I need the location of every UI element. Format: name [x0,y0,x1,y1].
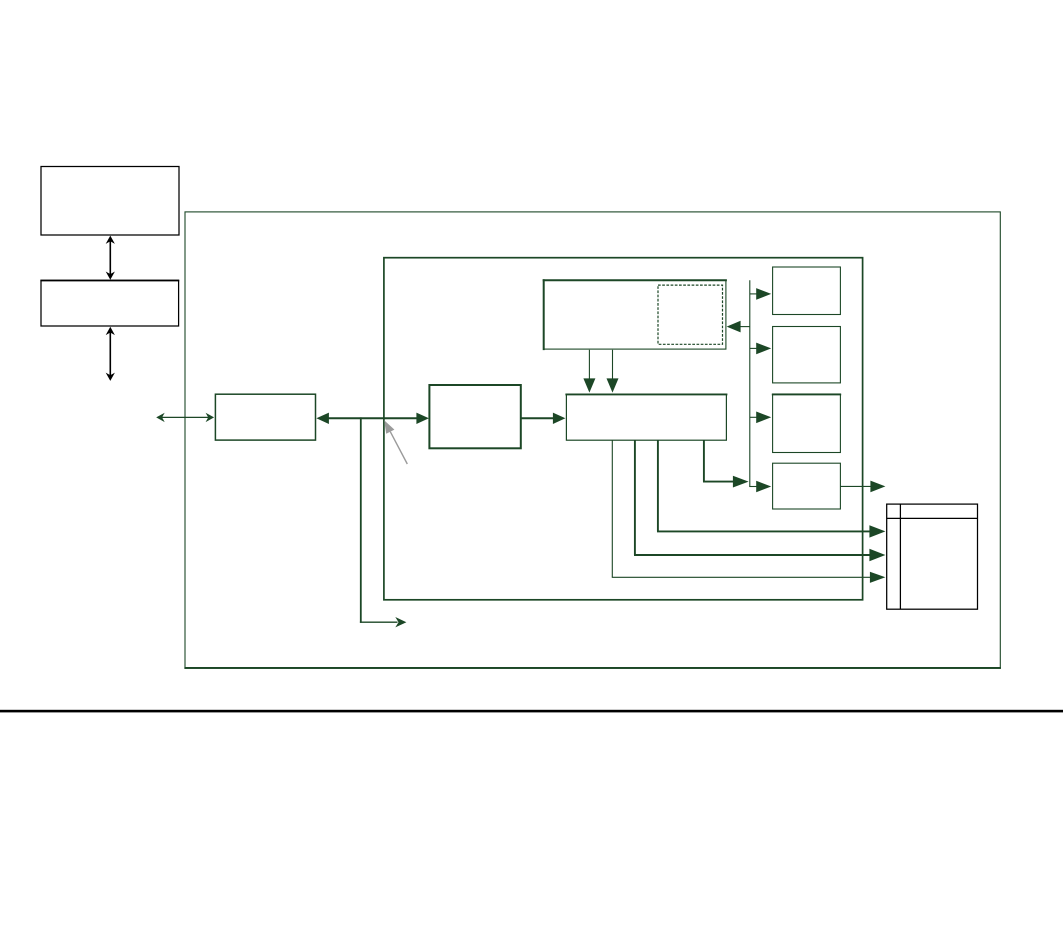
wire: bus to box A arrow [750,288,771,300]
box B (right column 2) [773,327,841,383]
arrow AB1 (double-headed vertical between EXT1 and EXT2) [106,236,115,280]
outer enclosure rectangle [184,212,1001,668]
box W (wide middle box) [565,394,727,440]
box D (right column 4) [773,463,841,509]
wire: W drop line B to table arrow [634,440,885,561]
inner enclosure rectangle [384,258,863,600]
wire: T to W down arrow 1 [583,350,595,393]
cursor (gray pointer) [384,420,407,464]
wire: vertical drop from bus junction down to bottom arrow [360,417,407,627]
box L1 (left green box) [215,394,315,440]
box EXT2 (second external box, thick top edge) [40,280,179,326]
wire: vertical bus line right of box T [749,280,757,486]
wire: W drop line A to table arrow [657,440,885,537]
wire: L2 to W arrow [521,413,566,424]
wire: box D output arrow [840,481,885,493]
wire: bus to dashed box arrow (points left) [727,321,750,333]
box A (right column 1) [773,267,841,315]
box L2 (second green box) [429,385,520,448]
arrow AB2 (double-headed vertical below EXT2) [106,327,115,381]
wire: double arrow between L1 and L2 [316,413,429,424]
wire: bus to box D arrow [756,481,771,493]
wire: bus to box B arrow [750,343,771,355]
box T (top wide box) [543,279,727,350]
wire: W drop line 4 to bus arrow [703,440,749,487]
box EXT1 (top-left external box) [41,167,179,236]
bottom rule (full width) [0,710,1063,713]
table box (black, right side with header row and left column) [887,504,978,609]
wire: T to W down arrow 2 [607,350,619,393]
wire: W drop line C to table arrow [612,440,886,583]
dashed box inside box T [658,285,723,344]
box C (right column 3, thick top edge) [772,394,841,453]
wire: left external double arrow [156,413,214,422]
wire: bus to box C arrow [750,412,771,424]
